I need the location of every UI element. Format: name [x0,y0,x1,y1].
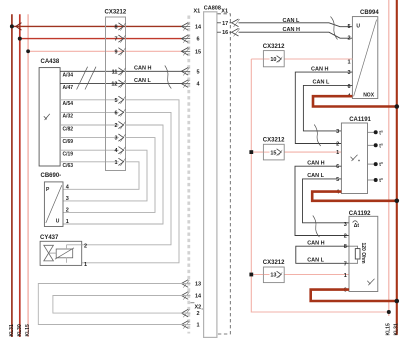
wire stub inside CX3212 way 13 [264,274,270,276]
wire KL31 CA1192 pin 6 to rail [311,290,397,301]
solenoid valve CY437 box [40,235,82,265]
wire CA438 C/63 to CX3212 pin 1 [60,162,119,169]
svg-text:13: 13 [270,273,276,279]
temp sensor module CA1191 box [341,117,371,194]
wire stub inside CX3212 way 10 [264,58,270,60]
pin 3 CA1192 [344,222,347,228]
svg-text:2: 2 [66,207,69,213]
CA1191 t sensor 2 [368,143,383,149]
svg-text:t°: t° [379,162,383,168]
junction KL31/feed [10,24,14,28]
wire CAN L X1 pin 17 to CB994 pin 5 [239,18,353,27]
CA1192 sensor icon [367,279,374,285]
wire CX3212 pin 2 nest [63,125,163,224]
pin 2 CX3212 [114,121,125,129]
svg-text:CA1192: CA1192 [349,211,371,217]
pin 1 CB994 [348,59,351,65]
svg-text:8: 8 [114,24,117,30]
svg-text:2: 2 [196,311,199,317]
wire stub inside CX3212 way 15 [264,151,270,153]
label CAN L left [134,78,151,84]
pin 3 CB994 [348,70,351,76]
svg-text:15: 15 [195,49,201,55]
svg-text:10: 10 [270,57,276,63]
wire KL15 to CB994 pin 1 [251,58,352,60]
svg-text:CAN H: CAN H [307,240,324,246]
svg-text:3: 3 [66,196,69,202]
svg-text:6: 6 [348,84,351,90]
svg-text:CAN L: CAN L [307,258,324,264]
svg-text:CB690-: CB690- [41,173,62,179]
svg-text:CAN H: CAN H [283,27,300,33]
svg-text:CB994: CB994 [360,10,379,16]
svg-text:t°: t° [379,143,383,149]
wire CX3212 pin 4 nest [63,150,147,201]
svg-text:CX3212: CX3212 [263,44,285,50]
svg-text:14: 14 [195,24,202,30]
wire KL31 feed to CX3212 pin 8 [12,25,182,27]
CA1191 t sensor 3 [368,162,383,168]
pin 3 CX3212 [114,134,125,142]
wire KL15 feed to CX3212 pin 9 [28,50,181,52]
inline connector arrow on KL31 feed [16,23,22,30]
CY437 internal link [49,252,57,254]
svg-text:5: 5 [348,24,351,30]
pin 6 X1 CA808 [181,35,199,43]
label X2 [190,303,205,311]
pin 16 X1 CA808 right [217,28,240,36]
CB690 letter P [46,187,50,193]
power rail KL31 left [11,14,13,337]
svg-text:KL31: KL31 [394,323,400,335]
wire CAN H CB994 pin 3 to CA1191 pin 2 [295,66,352,143]
pin 2 X2 CA808 [181,309,199,317]
svg-text:2: 2 [336,142,339,148]
svg-text:6: 6 [114,110,117,116]
svg-text:KL15: KL15 [25,324,31,336]
svg-text:C/63: C/63 [63,163,74,169]
pin 8 CA1192 [344,244,347,250]
wire CA438 C/69 to CX3212 pin 3 [60,138,119,145]
pin 9 CX3212 [114,48,125,56]
svg-text:C/82: C/82 [63,126,74,132]
svg-text:CAN L: CAN L [283,18,300,24]
power rail KL30 left [19,14,21,337]
ECU CA808 box [204,5,221,337]
svg-text:1: 1 [196,323,199,329]
svg-text:2: 2 [84,244,87,250]
pin 4 CX3212 [114,147,125,155]
wire loop X1 pin 13 to X2 pin 1 [38,284,190,325]
wire CAN L CB994 pin 6 to CA1191 pin 3 [303,80,352,131]
svg-text:A/54: A/54 [63,101,74,107]
label X1 right [221,9,228,15]
CA1191 internal sensor icon [351,155,360,161]
connector CX3212 way 15 [263,138,285,160]
wire KL30 feed to CX3212 pin 7 [20,38,182,40]
pin 6 CB994 [348,84,351,90]
svg-text:KL30: KL30 [17,324,23,336]
svg-text:1: 1 [114,160,117,166]
svg-text:KL31: KL31 [9,324,15,336]
pin 6 CA1191 [336,164,339,170]
svg-text:U: U [56,219,60,225]
label CAN H left [134,66,151,72]
svg-text:3: 3 [348,70,351,76]
junction KL31/CA1191 [395,199,400,204]
wire CA438 A/32 to CX3212 pin 6 [60,112,119,119]
pin 11 CX3212 [112,68,126,76]
junction KL31/CB994 [395,104,400,109]
label KL30 left [17,324,23,336]
svg-text:C/19: C/19 [63,152,74,158]
CA1192 delta-t icon [353,221,360,229]
CB690 diagonal [46,185,62,223]
svg-text:t°: t° [379,178,383,184]
pin 4 CB690 [66,184,70,190]
pressure sensor CB690 box [41,173,64,227]
svg-text:1: 1 [66,219,69,225]
wire CX3212 pin 5 to CB690 via nest [82,100,179,263]
pin 14 X1 CA808 [181,23,202,31]
pin 5 CB994 [348,24,351,30]
ECU CA438 box [39,59,60,166]
svg-text:5: 5 [114,98,117,104]
wire CA438 C/19 to CX3212 pin 4 [60,150,119,157]
svg-text:3: 3 [344,222,347,228]
CB994 diagonal [354,20,377,97]
svg-text:1: 1 [348,59,351,65]
svg-text:8: 8 [344,244,347,250]
pin 3 CB690 [66,196,69,202]
svg-text:CA808: CA808 [204,5,221,11]
pin 6 CA1192 [344,288,347,294]
svg-text:2: 2 [114,123,117,129]
KL15 pink distribution vertical [251,59,388,312]
svg-text:A/34: A/34 [63,73,74,79]
svg-text:Δt: Δt [354,223,360,229]
wire KL15 to CA1191 pin 1 [251,151,341,153]
wire KL31 CA1191 pin 4 to rail [312,192,397,201]
wire CAN H X1 pin 16 to CB994 pin 2 [239,27,353,38]
wire CA438 C/82 to CX3212 pin 2 [60,125,119,132]
svg-text:X1: X1 [221,9,228,15]
pin 1 CA1191 [336,150,339,156]
junction KL15/CA1192 [249,273,253,277]
pin 17 X1 CA808 right [217,19,240,27]
sensor icon inside CA438 [44,114,50,120]
junction KL15 right [387,310,391,314]
svg-text:11: 11 [112,69,118,75]
connector CX3212 main box [105,10,127,171]
CA1192 terminating resistor 120 Ohm [349,243,366,265]
pin 4 CA1191 [336,190,340,196]
pin 2 CB994 [348,36,351,42]
svg-text:X2: X2 [195,304,202,310]
pin 12 CX3212 [111,80,125,88]
svg-text:CA438: CA438 [41,59,60,65]
junction KL15/feed [26,49,30,53]
power rail KL15 right [388,0,390,316]
svg-text:14: 14 [195,294,202,300]
connector X1 harness dashed line [187,16,190,334]
svg-text:CA1191: CA1191 [349,117,371,123]
CB690 letter U [56,219,60,225]
svg-text:CAN L: CAN L [313,80,330,86]
svg-text:CAN L: CAN L [307,173,324,179]
connector CX3212 way 10 [263,44,285,67]
wire CAN L CA1191 pin 5 to CA1192 pin 3 [303,173,350,223]
wire CX3212 pin 3 nest [63,138,155,213]
connector CX3212 way 13 [263,260,285,283]
pin 4 X1 CA808 [181,80,200,88]
svg-text:CX3212: CX3212 [105,10,127,16]
wire CA438 A/54 to CX3212 pin 5 [60,100,119,107]
CY437 pin 2 stub [67,244,88,250]
power rail KL31 right [396,0,398,335]
pin 1 X2 CA808 [181,321,199,329]
temp sensor module CA1192 box [349,211,378,292]
wire CAN H bracket CA1192 pin 8 [296,240,349,263]
label KL15 right [386,323,392,335]
label X1 left [194,9,201,15]
svg-text:A/32: A/32 [63,114,74,120]
svg-text:3: 3 [114,136,117,142]
svg-text:15: 15 [270,150,276,156]
CY437 solenoid rect [55,248,74,259]
connector X1 device dashed line right [218,14,231,334]
pin 15 X1 CA808 [181,48,201,56]
CB994 letter U [356,23,360,29]
junction KL31/CA1192 [395,299,400,304]
junction KL30/feed [18,37,22,41]
svg-text:CX3212: CX3212 [263,138,285,144]
CB994 label NOX [363,93,375,99]
pin 1 CB690 [66,219,69,225]
svg-text:CX3212: CX3212 [263,260,285,266]
svg-text:X1: X1 [194,9,201,15]
svg-text:CAN H: CAN H [307,160,324,166]
svg-text:5: 5 [336,177,339,183]
svg-text:1: 1 [84,262,87,268]
svg-text:t°: t° [379,130,383,136]
svg-text:1: 1 [336,150,339,156]
twisted pair mark top right [331,17,338,40]
svg-text:CAN L: CAN L [134,78,151,84]
svg-text:A/47: A/47 [63,85,74,91]
svg-text:CY437: CY437 [40,235,59,241]
svg-text:2: 2 [348,36,351,42]
power rail KL15 left [27,14,29,337]
CY437 pin 2 wire [67,244,82,246]
svg-text:120 Ohm: 120 Ohm [360,243,366,265]
svg-text:16: 16 [222,30,228,36]
pin 7 CX3212 [114,35,125,43]
pin 4 CB994 [348,94,352,100]
pin 6 CX3212 [114,109,125,117]
twisted pair mark CAN pair left [165,66,172,89]
pin 14 X1 CA808 [181,292,202,300]
CA1191 t sensor 1 [368,130,383,136]
pin 2 CA1191 [336,142,339,148]
pin 8 CX3212 [114,23,125,31]
twisted pair slashes on A/34 A/47 [77,67,96,90]
label KL31 right [394,323,400,335]
pin 1 CA1192 [344,273,347,279]
CA1191 t sensor 4 [368,178,383,184]
wire CX3212 pin 1 nest [63,162,139,190]
pin 2 CA1192 [344,234,347,240]
svg-text:6: 6 [196,37,199,43]
svg-text:NOX: NOX [363,93,375,99]
twisted pair mark CB994-CA1191 [314,125,321,147]
svg-text:3: 3 [336,129,339,135]
pin 1 CX3212 [114,158,125,166]
svg-text:12: 12 [111,82,117,88]
pin 5 CA1191 [336,177,339,183]
wire KL31 CB994 pin 4 to rail [313,96,397,106]
svg-text:1: 1 [344,273,347,279]
svg-text:5: 5 [196,69,199,75]
svg-text:9: 9 [114,49,117,55]
pin 3 CA1191 [336,129,339,135]
wire CA438 A/34 CAN H to CX3212 pin 11 [60,71,181,78]
wire CA438 A/47 CAN L to CX3212 pin 12 [60,84,181,91]
pin 7 CA1192 [344,261,347,267]
pin 13 X1 CA808 [181,280,201,288]
label KL15 left [25,324,31,336]
wire loop X1 pin 14 to X2 pin 2 [53,296,190,314]
pin 5 X1 CA808 [181,68,199,76]
svg-text:17: 17 [222,21,228,27]
junction KL15/CA1191 [249,150,253,154]
CY437 pin 1 stub [67,258,88,268]
svg-text:C/69: C/69 [63,139,74,145]
svg-text:KL15: KL15 [386,323,392,335]
pin 5 CX3212 [114,96,125,104]
svg-text:6: 6 [336,164,339,170]
label KL31 left [9,324,15,336]
svg-text:7: 7 [114,37,117,43]
twisted pair mark CA1191-CA1192 [313,216,320,238]
wire CAN H CA1191 pin 6 to CA1192 pin 2 [295,160,349,235]
CY437 valve hourglass [44,245,54,261]
wire KL15 to CA1192 pin 1 [251,274,349,276]
svg-text:7: 7 [344,261,347,267]
svg-text:13: 13 [195,282,201,288]
svg-text:2: 2 [344,234,347,240]
NOx sensor CB994 box [352,10,379,98]
svg-text:CAN H: CAN H [134,66,151,72]
svg-text:U: U [356,23,360,29]
pin 2 CB690 [66,207,69,213]
wire CX3212 pin 6 nest [82,112,171,244]
svg-text:CAN H: CAN H [311,66,328,72]
